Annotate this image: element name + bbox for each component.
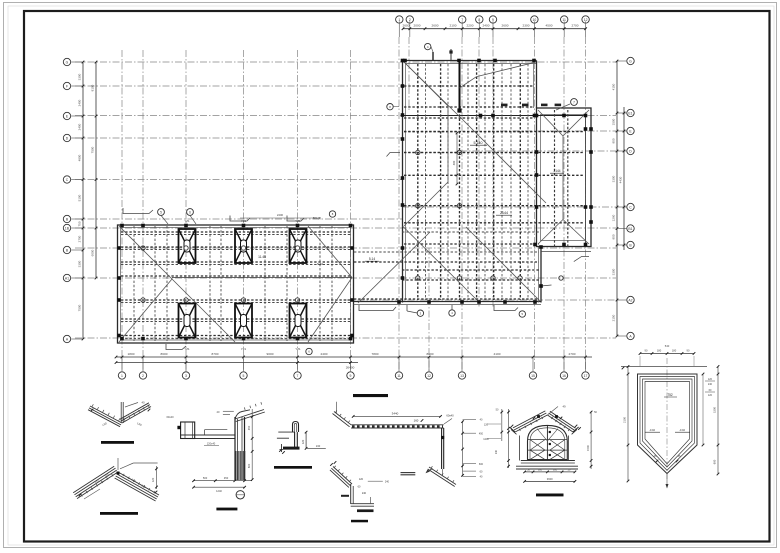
left dim tick y86 (82, 85, 85, 88)
column marker square 6 (401, 59, 405, 63)
callout bubble b leader (190, 215, 196, 224)
right dim tick2 y207 (623, 206, 626, 209)
connector beam y252 (354, 251, 539, 253)
right block ridge (562, 136, 564, 220)
wing top hook 2 (230, 216, 250, 222)
upper block beam2 x448 (447, 64, 449, 300)
flag square (457, 108, 461, 112)
upper block beam2 x502 (501, 64, 503, 300)
column marker square 23 (589, 220, 593, 224)
left wall hook (387, 153, 401, 157)
column K6 bottom row (290, 304, 307, 338)
column marker square 19 (535, 114, 539, 118)
svg-text:240: 240 (495, 449, 498, 454)
svg-text:450: 450 (479, 432, 484, 435)
detail2 hatch left (112, 474, 113, 476)
left dim tick y278 (82, 277, 85, 280)
svg-text:2600: 2600 (403, 23, 410, 27)
upper block beam x417.8 (417, 64, 419, 300)
top dim tick x564.2 (563, 27, 566, 30)
detail7 dim right (590, 411, 592, 469)
column marker square 25 (584, 205, 588, 209)
callout bubble a (158, 209, 165, 216)
svg-text:8600: 8600 (427, 352, 434, 356)
top axis bubble 11 stub (563, 21, 565, 37)
detail2 ridge slope left (77, 472, 118, 499)
detail3 top slope (235, 410, 264, 420)
detail8 pentagon inner1 (640, 377, 695, 471)
left dim tick y62 (82, 61, 85, 64)
svg-text:1B: 1B (65, 226, 70, 230)
bottom axis bubble 7 stub (297, 357, 299, 371)
bottom axis bubble 12 stub (428, 357, 430, 371)
right dim tick2 y131 (623, 130, 626, 133)
column marker square 30 (562, 243, 566, 247)
top dim tick x403 (402, 27, 405, 30)
bottom axis bubble 11 stub (398, 357, 400, 371)
wing vertical beam x221 (220, 226, 222, 341)
svg-text:15: 15 (531, 374, 535, 378)
detail3 left assembly inner (192, 422, 194, 439)
svg-text:120: 120 (708, 378, 713, 381)
svg-text:120: 120 (359, 478, 364, 481)
bottom axis bubble 5 stub (243, 357, 245, 371)
svg-text:600: 600 (538, 469, 543, 472)
upper block left wall (402, 61, 404, 303)
svg-text:240: 240 (316, 444, 321, 448)
window mark x554.6 (555, 104, 562, 107)
svg-text:YZ1: YZ1 (241, 347, 247, 351)
column marker square 9 (401, 137, 405, 141)
detail3 title bar (216, 508, 237, 511)
column marker square 45 (349, 224, 353, 228)
detail5 equals mark (401, 472, 416, 474)
detail8 top dim stubs (639, 356, 641, 366)
detail7 wall left (519, 436, 521, 461)
svg-text:5.140: 5.140 (474, 141, 483, 145)
detail6 slope (333, 467, 352, 485)
joint circle 1 (141, 246, 145, 250)
bottom axis bubble 13 (458, 372, 465, 379)
bottom axis bubble 11 (395, 372, 402, 379)
right block inner right line (585, 115, 587, 243)
svg-text:10: 10 (533, 18, 537, 22)
svg-text:3300: 3300 (78, 73, 82, 80)
detail3 horizontal member (181, 434, 235, 436)
detail3 bottom dim2 (194, 486, 245, 488)
window mark x541 (541, 104, 548, 107)
joint circle 16 (518, 276, 522, 280)
right block hip 2 (563, 110, 589, 136)
bottom dim tick B x297.5 (296, 361, 299, 364)
detail2 apex leader2 (117, 458, 119, 470)
column marker square 13 (401, 276, 405, 280)
detail8 pentagon inner3 (645, 382, 690, 464)
svg-text:9: 9 (492, 18, 494, 22)
wing beam y232 (121, 231, 351, 233)
bottom axis bubble 3 (182, 372, 189, 379)
svg-text:2200: 2200 (467, 23, 474, 27)
svg-text:160: 160 (414, 418, 419, 422)
wing vertical beam x320 (319, 226, 321, 341)
detail1 valley slope right (122, 407, 151, 424)
detail5 label bar (353, 394, 388, 397)
detail7 window mullion (546, 425, 548, 459)
svg-text:2144: 2144 (553, 169, 560, 173)
detail3 circle line (236, 494, 246, 496)
bottom dim tick A x122 (121, 356, 124, 359)
wing beam double y302.5 (121, 302, 351, 304)
upper block beam x476.6 (476, 64, 478, 300)
column marker square 39 (539, 284, 543, 288)
wing vertical beam x210 (209, 226, 211, 341)
wing beam y276.0 (121, 275, 351, 277)
svg-text:11.45: 11.45 (258, 255, 266, 259)
column marker square 34 (427, 300, 431, 304)
svg-text:60x40: 60x40 (446, 414, 454, 418)
detail7 dim bottom2 (525, 480, 575, 482)
vertical axis grid line x534.5 (534, 37, 536, 371)
column marker square 33 (397, 300, 401, 304)
svg-text:540: 540 (665, 344, 670, 348)
bottom axis bubble 12 (425, 372, 432, 379)
top axis bubble 9 (489, 16, 496, 23)
column K1 top row (179, 229, 196, 263)
svg-text:2700: 2700 (78, 235, 82, 242)
detail8 point ticks (656, 460, 659, 463)
bottom dim tick A x297.5 (296, 356, 299, 359)
svg-text:900: 900 (612, 138, 616, 143)
column marker square 32 (533, 243, 537, 247)
vertical axis grid line x462 (461, 37, 463, 371)
left axis bubble A1 (63, 274, 70, 281)
upper block top wall inner (405, 63, 537, 65)
top dim tick x534.4 (533, 27, 536, 30)
bottom axis bubble 2 stub (142, 357, 144, 371)
top axis bubble 12 (582, 16, 589, 23)
vertical axis grid line x479 (478, 37, 480, 308)
detail1 valley slope left (90, 406, 122, 423)
right axis bubble D (627, 147, 634, 154)
column marker square 38 (533, 300, 537, 304)
bottom axis bubble 7 (294, 372, 301, 379)
detail2 left leader (84, 489, 100, 499)
upper block beam x493.7 (493, 64, 495, 300)
svg-text:752: 752 (667, 393, 673, 397)
detail7 apex leader (547, 407, 558, 416)
wing vertical beam x167 (166, 226, 168, 341)
column marker square 14 (479, 114, 483, 118)
detail2 title bar (100, 512, 138, 515)
column marker square 36 (477, 300, 481, 304)
svg-text:2400: 2400 (277, 213, 284, 217)
upper block beam2 x485 (484, 64, 486, 300)
detail3 member step (205, 429, 228, 431)
detail6 title bar (351, 520, 368, 523)
detail7 window transom1 (528, 439, 568, 441)
detail6 leader (368, 480, 383, 482)
detail5 top dim (353, 415, 440, 417)
flag slanted leader (477, 62, 536, 76)
right dim tick y336 (616, 335, 619, 338)
left dim tick y179.5 (82, 178, 85, 181)
joint circle 9 (416, 150, 420, 154)
svg-text:9000: 9000 (267, 352, 274, 356)
svg-text:750: 750 (78, 221, 82, 226)
column marker square 28 (535, 205, 539, 209)
detail2 right dim (156, 466, 158, 489)
left axis bubble C (63, 176, 70, 183)
svg-text:7800: 7800 (372, 352, 379, 356)
top dim tick x445 (444, 27, 447, 30)
svg-text:A2: A2 (628, 298, 632, 302)
connector right wall (540, 247, 542, 303)
left dim tick2 y116 (95, 115, 98, 118)
upper block beam x459.5 (459, 64, 461, 300)
svg-text:240: 240 (708, 383, 713, 386)
detail7 window x4 (550, 450, 565, 460)
top dim tick x462.2 (461, 27, 464, 30)
column marker square 10 (401, 176, 405, 180)
upper block right upper wall (536, 61, 538, 109)
wing top hook 1 (123, 208, 153, 214)
wing hip diagonal lower left (119, 279, 172, 342)
upper block diagonal 3 (404, 62, 448, 106)
wing beam double y264.5 (121, 264, 351, 266)
detail3 right dim (251, 409, 253, 480)
wing beam y300 (121, 299, 351, 301)
svg-text:600: 600 (553, 469, 558, 472)
left axis bubble G (63, 58, 70, 65)
svg-text:180: 180 (657, 349, 662, 353)
wing beam double y338.6 (121, 338, 351, 340)
detail7 window transom2 (528, 449, 568, 451)
column marker square 41 (141, 224, 145, 228)
svg-text:F: F (66, 84, 68, 88)
detail3 hatch block (235, 451, 237, 480)
detail5 brace (429, 467, 456, 485)
callout hook 3 (494, 305, 518, 311)
wing beam y319 (121, 318, 351, 320)
svg-text:5: 5 (160, 210, 162, 214)
block dim line (456, 133, 458, 184)
detail3 post (234, 417, 236, 480)
bottom axis bubble 15 (529, 372, 536, 379)
svg-text:2100: 2100 (623, 417, 627, 423)
detail1 center board (120, 402, 122, 423)
left dim tick y219 (82, 218, 85, 221)
detail6 foot bar (357, 509, 374, 512)
detail3 left assembly square (177, 426, 180, 429)
right axis bubble C stub (617, 206, 626, 208)
svg-text:2150: 2150 (612, 314, 616, 321)
joint circle 14 (416, 276, 420, 280)
svg-text:2400: 2400 (78, 99, 82, 106)
detail2 apex leader (120, 463, 133, 469)
right dim tick y113 (616, 112, 619, 115)
detail7 mullion labels (549, 431, 551, 433)
top axis bubble 10 stub (533, 21, 535, 37)
column marker square 22 (589, 205, 593, 209)
left axis bubble B (63, 215, 70, 222)
left axis bubble D (63, 134, 70, 141)
grid callout bubble (387, 104, 393, 110)
top axis bubble 7 stub (461, 21, 463, 37)
detail7 apex marks (537, 415, 540, 418)
right axis bubble B (627, 241, 634, 248)
horizontal axis grid line y62 (75, 61, 616, 63)
right axis bubble D stub (617, 150, 626, 152)
svg-text:500: 500 (203, 476, 208, 480)
detail7 roof right (547, 415, 573, 432)
right block hip 4 (563, 220, 589, 245)
svg-text:13: 13 (460, 374, 464, 378)
column K2 top row (235, 229, 252, 263)
svg-text:26400: 26400 (346, 366, 355, 370)
column K5 bottom row (235, 304, 252, 338)
right axis bubble B1 stub (617, 228, 626, 230)
left axis bubble B (63, 246, 70, 253)
svg-text:2144: 2144 (500, 211, 508, 215)
horizontal axis grid line (right) y151 (460, 150, 616, 152)
vertical axis grid line x350.5 (350, 50, 352, 371)
connector beam y262 (354, 261, 539, 263)
svg-text:240: 240 (385, 480, 390, 483)
right axis bubble A2 stub (617, 299, 626, 301)
column marker square 48 (184, 337, 188, 341)
svg-text:8600: 8600 (161, 352, 168, 356)
upper block beam2 x511 (510, 64, 512, 300)
detail3 left assembly (181, 422, 195, 439)
detail6 end ticks (330, 463, 333, 466)
wing hip diagonal upper right (308, 226, 352, 278)
right dim tick y300 (616, 299, 619, 302)
left dim tick y250 (82, 249, 85, 252)
vertical axis grid line x493 (492, 37, 494, 308)
bottom axis bubble 17 (582, 372, 589, 379)
column marker square 57 (117, 334, 121, 338)
wing vertical beam x287 (286, 226, 288, 341)
svg-text:2700: 2700 (572, 23, 579, 27)
vertical axis grid line x409 (408, 37, 410, 110)
svg-text:1500: 1500 (612, 118, 616, 125)
left dim tick y116 (82, 115, 85, 118)
bottom axis bubble 16 (560, 372, 567, 379)
bottom dim tick B x350.5 (349, 361, 352, 364)
detail3 circle (236, 491, 244, 499)
bottom axis bubble 1 (118, 372, 125, 379)
vertical axis grid line x122 (121, 50, 123, 371)
left axis bubble B stub (71, 249, 83, 251)
detail1 end tick left (91, 409, 94, 412)
detail3 top slope hatch (243, 407, 246, 410)
column marker square 1 (403, 59, 407, 63)
callout bubble c leader (556, 104, 570, 110)
plan text 2144 underline (496, 214, 512, 216)
svg-text:2700: 2700 (569, 352, 576, 356)
callout bubble c (571, 99, 578, 106)
connector diagonal 2 (466, 227, 540, 301)
window mark x522 (522, 104, 529, 107)
upper block diagonal 2 (404, 182, 448, 226)
svg-text:600: 600 (713, 459, 717, 464)
detail7 eave tip right (573, 427, 579, 432)
svg-text:600: 600 (479, 463, 484, 466)
flag thick vertical (459, 61, 461, 111)
upper block beam y131.6 (404, 131, 534, 133)
svg-text:900: 900 (612, 234, 616, 239)
column marker square 27 (535, 173, 539, 177)
bottom axis bubble 9 (347, 372, 354, 379)
wing ridge line (172, 277, 352, 279)
vertical axis grid line x297.5 (297, 50, 299, 371)
vertical axis grid line x243.5 (243, 50, 245, 371)
right block hip 1 (538, 110, 563, 136)
right dim tick y151 (616, 150, 619, 153)
upper block beam2 x528 (527, 64, 529, 300)
horizontal axis grid line (left) y219 (75, 218, 402, 220)
upper block beam y247 (404, 243, 539, 245)
wing beam y262 (121, 261, 351, 263)
wing top hook 3 (287, 216, 304, 222)
left dim tick2 y278 (95, 277, 98, 280)
svg-text:2000: 2000 (414, 23, 421, 27)
bottom axis bubble 1 stub (121, 357, 123, 371)
bottom dim tick A x564 (563, 356, 566, 359)
detail7 base (516, 465, 578, 467)
bottom dimension line upper (116, 356, 592, 358)
detail4 hairpin (293, 422, 299, 433)
column marker square 16 (533, 114, 537, 118)
column marker square 21 (589, 150, 593, 154)
horizontal axis grid line (left) y138 (75, 137, 402, 139)
detail2 end tick left (79, 494, 82, 497)
column marker square 52 (117, 246, 121, 250)
right axis bubble E1 (627, 109, 634, 116)
detail8 pentagon outer (638, 374, 698, 474)
detail4 right dim (305, 432, 307, 448)
vertical axis grid line x399 (398, 37, 400, 371)
left axis bubble A stub (71, 338, 83, 340)
svg-text:8100: 8100 (91, 84, 95, 91)
column marker square 31 (584, 243, 588, 247)
upper block beam x520.3 (519, 64, 521, 300)
top axis bubble 10 (531, 16, 538, 23)
wing top callout bubble (329, 211, 335, 217)
svg-text:G: G (66, 60, 69, 64)
upper block beam x440.6 (440, 64, 442, 300)
top axis bubble 11 (561, 16, 568, 23)
svg-text:600: 600 (247, 463, 251, 468)
right axis bubble A stub (617, 335, 626, 337)
detail5 post (441, 428, 443, 469)
right dim tick y207 (616, 206, 619, 209)
bottom axis bubble 3 stub (185, 357, 187, 371)
svg-text:1260: 1260 (612, 214, 616, 221)
column marker square 4 (493, 59, 497, 63)
column marker square 17 (562, 114, 566, 118)
connector diagonal 1 (403, 226, 481, 303)
left axis bubble F (63, 82, 70, 89)
detail6 left dash (341, 495, 349, 497)
top axis bubble 9 stub (492, 21, 494, 37)
detail2 ridge slope right (118, 472, 159, 495)
left axis bubble E (63, 112, 70, 119)
left dim tick2 y228 (95, 227, 98, 230)
top dim tick x518 (517, 27, 520, 30)
connector beam y232 (402, 231, 539, 233)
bottom dim tick B x116 (115, 361, 118, 364)
